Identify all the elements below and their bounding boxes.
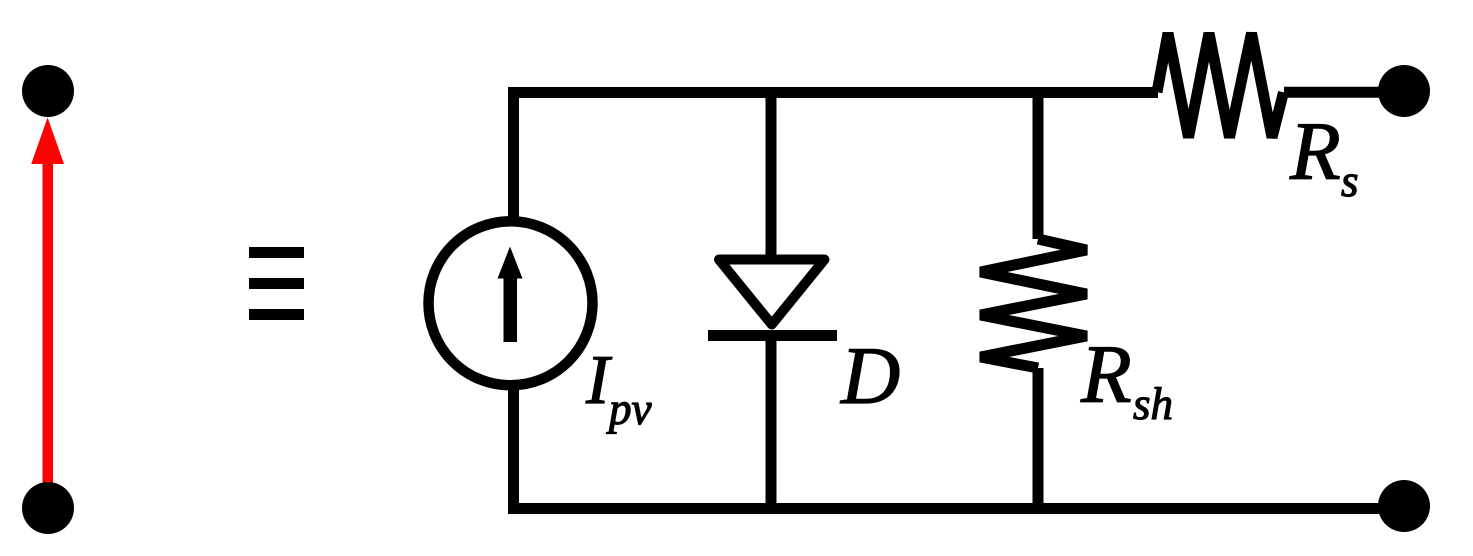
label Rsh xyxy=(1080,328,1173,429)
svg-text:pv: pv xyxy=(606,384,652,434)
equivalence symbol xyxy=(249,247,304,320)
wire top rail xyxy=(514,93,1159,222)
wire Rsh bottom xyxy=(1033,368,1044,509)
svg-text:s: s xyxy=(1341,156,1359,206)
terminal dot top-right xyxy=(1378,65,1430,117)
wire bottom rail xyxy=(514,386,1381,509)
red current arrow xyxy=(31,118,64,496)
label Rs xyxy=(1289,105,1359,206)
wire diode cathode xyxy=(766,341,777,509)
current source Ipv xyxy=(429,221,593,385)
terminal dot bottom-right xyxy=(1378,480,1430,532)
wire Rsh top xyxy=(1033,93,1044,240)
terminal dot top-left xyxy=(22,65,74,117)
svg-text:D: D xyxy=(840,330,900,421)
svg-text:R: R xyxy=(1289,105,1341,197)
label Ipv xyxy=(585,342,652,434)
wire Rs to terminal xyxy=(1284,87,1380,98)
svg-text:R: R xyxy=(1080,328,1132,420)
diode D xyxy=(708,260,837,342)
svg-text:sh: sh xyxy=(1133,379,1173,429)
resistor Rs xyxy=(1157,33,1284,138)
terminal dot bottom-left xyxy=(22,482,74,534)
wire diode anode xyxy=(766,93,777,260)
resistor Rsh xyxy=(981,239,1087,368)
